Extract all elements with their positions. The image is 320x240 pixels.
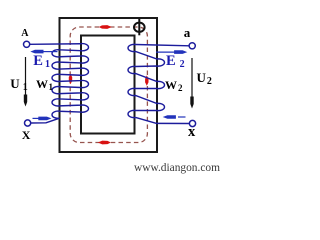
label U2 bbox=[197, 70, 212, 87]
primary winding W1 bbox=[52, 44, 88, 119]
terminal A bbox=[24, 41, 30, 47]
label E2 bbox=[166, 53, 185, 70]
label X bbox=[22, 128, 31, 143]
flux arrow right limb (points down) bbox=[145, 75, 148, 85]
phi symbol bbox=[134, 19, 145, 35]
label x bbox=[188, 124, 195, 141]
flux arrow bottom (points left) bbox=[98, 141, 111, 145]
label W2 bbox=[165, 78, 183, 93]
label a bbox=[184, 25, 191, 41]
wire from a to secondary coil bbox=[136, 45, 190, 46]
label W1 bbox=[36, 77, 53, 92]
secondary winding W2 bbox=[128, 44, 164, 117]
flux arrow left limb (points up) bbox=[69, 74, 72, 84]
terminal a bbox=[189, 43, 195, 49]
terminal x bbox=[189, 120, 195, 126]
voltage arrow U1 (down) bbox=[24, 57, 27, 107]
label U1 bbox=[10, 76, 27, 93]
voltage arrow U2 (down) bbox=[190, 58, 193, 109]
terminal X bbox=[25, 120, 31, 126]
label A bbox=[21, 28, 28, 39]
core inner window bbox=[81, 36, 135, 134]
current arrow E1 (points left) bbox=[30, 50, 57, 54]
current arrow at x (points left) bbox=[163, 115, 186, 119]
wire from A to primary coil bbox=[30, 43, 81, 46]
current arrow E2 (points right) bbox=[156, 50, 187, 54]
flux arrow top (points right) bbox=[99, 25, 112, 29]
core outer boundary bbox=[60, 18, 158, 152]
flux path dashed loop bbox=[70, 27, 147, 143]
wire from primary coil to X bbox=[31, 118, 60, 123]
watermark bbox=[134, 162, 220, 174]
label E1 bbox=[33, 53, 50, 70]
wire from secondary coil to x bbox=[136, 117, 190, 123]
current arrow at X (points right) bbox=[33, 117, 52, 121]
